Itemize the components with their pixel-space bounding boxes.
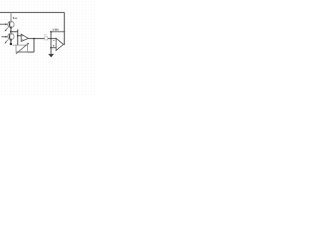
T1a emitter arrowhead: [10, 26, 12, 29]
wire: feedback down: [33, 39, 35, 53]
T1a lower-left diagonal arrow: [6, 27, 9, 30]
wire: into U2 inverting input: [51, 38, 56, 40]
resistor R1 (small inline body): [45, 37, 48, 40]
wire: T1b emitter down: [10, 40, 12, 44]
node U2 inverting input: [50, 38, 52, 40]
wire: U2 feedback vertical: [50, 32, 52, 55]
wire: right feedback vertical: [63, 12, 65, 44]
node plus tap: [50, 47, 52, 49]
potentiometer arrow: [16, 43, 28, 54]
transistor T1b: [8, 33, 14, 39]
wire: buffer input vertical: [17, 30, 19, 45]
wire: between transistors: [10, 28, 12, 34]
T1b emitter arrowhead: [10, 38, 12, 41]
op-amp U2: [53, 38, 64, 50]
soft halo under main wires: [0, 12, 65, 54]
wire: U2 output stub: [63, 43, 64, 45]
wire: U1 output: [28, 38, 51, 40]
wire: U2 feedback top run: [51, 31, 64, 33]
background: [0, 0, 96, 96]
label emitter net: [13, 45, 17, 46]
node feedback/output junction: [63, 31, 65, 33]
ground: [49, 54, 54, 55]
label T1a: [13, 17, 17, 19]
wire: into op-amp U1: [18, 35, 22, 37]
node feedback corner: [50, 31, 52, 33]
node emitter terminal: [10, 43, 12, 45]
transistor T1a: [8, 21, 14, 27]
wire: U2 non-inverting input: [51, 47, 56, 49]
node buffer input: [17, 35, 19, 37]
T1a base input arrow: [0, 23, 6, 25]
label R1: [44, 34, 47, 35]
wire: feedback bottom run: [16, 51, 34, 53]
node midpoint dot: [10, 31, 12, 33]
wire: stub tick at top of buffer input vertical: [17, 29, 19, 31]
label R2: [53, 29, 59, 31]
op-amp U1: [21, 34, 28, 41]
wire: midpoint to buffer: [11, 31, 18, 33]
potentiometer P1 box: [16, 45, 28, 52]
wire: T1a collector: [10, 12, 12, 21]
node feedback tap: [33, 38, 35, 40]
grid: [0, 0, 96, 96]
T1b lower-left diagonal arrow: [6, 40, 9, 43]
wire: top feedback rail: [0, 11, 64, 13]
T1b base input arrow: [2, 36, 7, 38]
